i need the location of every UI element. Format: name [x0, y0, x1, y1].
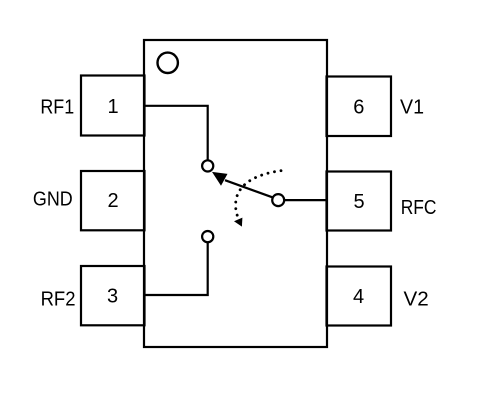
svg-text:RF1: RF1	[40, 97, 74, 119]
wire pin5 to pole	[285, 199, 327, 201]
throw contact node RF2	[202, 231, 213, 242]
svg-text:4: 4	[353, 286, 364, 308]
switch motion arc	[236, 171, 281, 217]
wire pin1 to throw contact	[144, 106, 208, 160]
svg-text:GND: GND	[33, 188, 73, 210]
pole contact node RFC	[272, 194, 284, 206]
svg-text:RFC: RFC	[401, 197, 437, 219]
wire pin3 to throw contact	[144, 242, 208, 295]
pin 4	[327, 267, 392, 326]
pin 2	[81, 171, 145, 230]
pin 5	[327, 172, 392, 231]
switch S1 arm (pole to RF1 throw)	[225, 180, 272, 197]
svg-text:V2: V2	[404, 289, 429, 311]
pin 1 indicator	[158, 53, 178, 73]
svg-text:3: 3	[107, 286, 118, 308]
throw contact node RF1	[202, 160, 213, 171]
svg-text:2: 2	[107, 190, 118, 212]
svg-text:6: 6	[353, 97, 364, 119]
svg-text:5: 5	[353, 191, 364, 213]
svg-text:1: 1	[107, 96, 118, 118]
pin 3	[81, 266, 145, 325]
svg-text:RF2: RF2	[41, 289, 76, 311]
IC U1 package outline (SPDT RF switch)	[144, 40, 327, 347]
svg-text:V1: V1	[400, 97, 424, 119]
pin 1	[81, 76, 145, 136]
pin 6	[327, 77, 392, 137]
